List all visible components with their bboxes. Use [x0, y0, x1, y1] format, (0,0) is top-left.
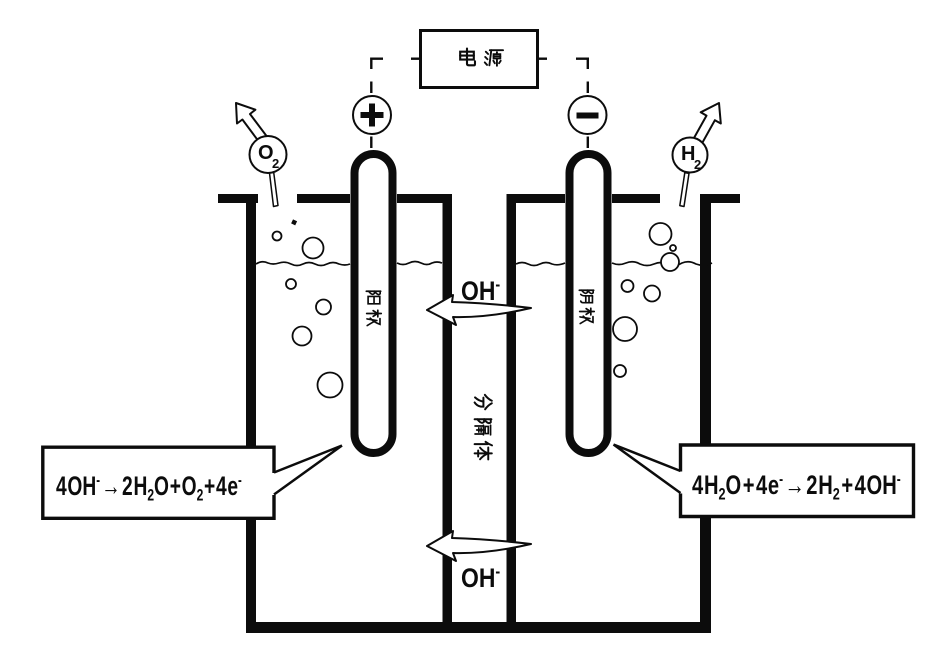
svg-text:OH-: OH- — [461, 276, 500, 306]
svg-text:OH-: OH- — [461, 563, 500, 593]
svg-text:2: 2 — [694, 157, 701, 172]
svg-text:2: 2 — [272, 156, 279, 171]
